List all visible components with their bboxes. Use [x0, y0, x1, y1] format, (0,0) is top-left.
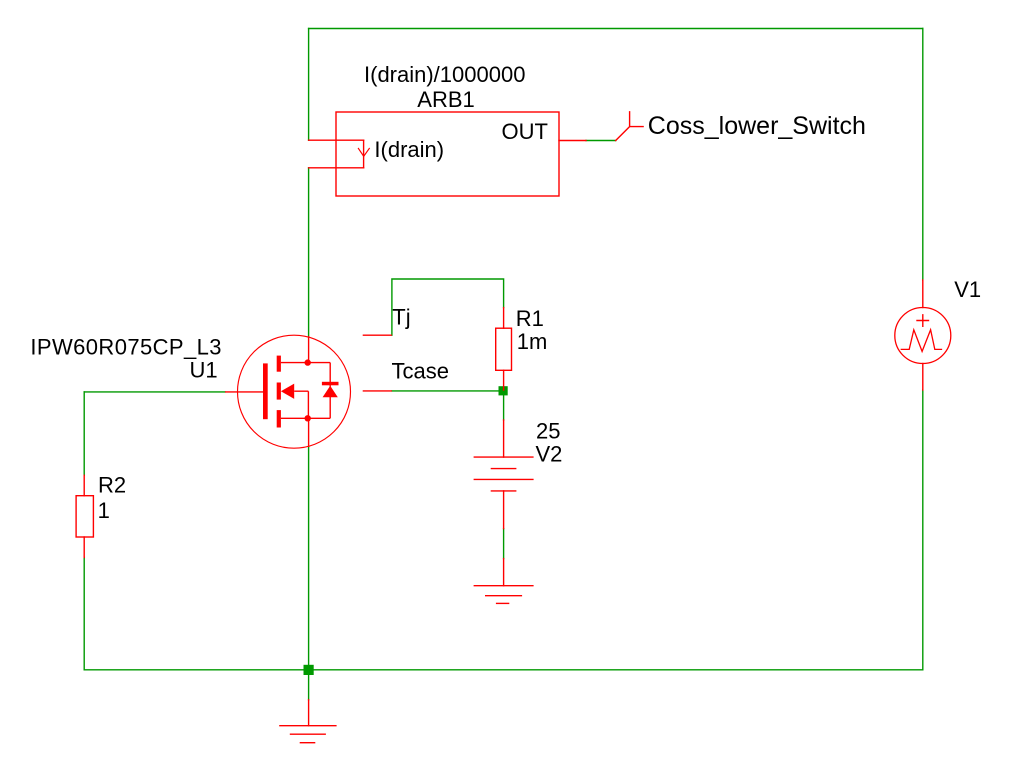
wire ARB1 sense vertical: [363, 140, 365, 168]
wire bottom rail: [84, 669, 923, 671]
svg-text:R2: R2: [98, 473, 126, 498]
svg-text:I(drain): I(drain): [374, 137, 444, 162]
svg-text:Tj: Tj: [392, 304, 410, 329]
svg-text:1: 1: [98, 498, 110, 523]
svg-text:1m: 1m: [517, 329, 548, 354]
resistor R1: [496, 308, 512, 390]
wire Tj to R1 top: [392, 279, 504, 335]
wire source to bottom rail: [308, 447, 310, 670]
svg-text:V2: V2: [536, 441, 563, 466]
wire body diode branch: [329, 363, 331, 419]
pin R1 bottom: [503, 370, 505, 390]
pin V1 top: [922, 280, 924, 308]
pin drain vertical: [308, 336, 310, 363]
wire right vertical to V1: [922, 29, 924, 281]
ground below bottom rail: [280, 700, 336, 743]
U1 body diode triangle: [323, 386, 338, 398]
wire gate horizontal: [84, 391, 225, 393]
wire left vertical gate to R2: [83, 392, 85, 475]
wire node to V2 top: [503, 391, 505, 420]
wire rail to ground stub: [308, 670, 310, 700]
pin R1 top: [503, 308, 505, 329]
resistor R2: [76, 475, 93, 557]
svg-text:OUT: OUT: [502, 119, 548, 144]
svg-text:ARB1: ARB1: [417, 87, 474, 112]
wire Tcase to node: [392, 390, 503, 392]
pin Tj stub: [363, 334, 392, 336]
wire V2 bottom to ground: [503, 529, 505, 559]
V2 plate long 1: [474, 456, 533, 458]
wire drain middle segment: [308, 168, 310, 336]
pin V2 bottom: [503, 491, 505, 529]
pin source vertical: [308, 418, 310, 447]
svg-text:I(drain)/1000000: I(drain)/1000000: [364, 62, 525, 87]
wire drain top segment: [308, 29, 310, 141]
voltage source V2 battery: [474, 420, 533, 529]
ground below V2: [474, 559, 533, 604]
V2 plate long 2: [474, 478, 533, 480]
pin Tcase stub: [363, 390, 392, 392]
voltage source V1: [895, 280, 951, 390]
wire substrate to source: [294, 391, 308, 418]
svg-text:Tcase: Tcase: [392, 359, 449, 384]
node Coss_lower_Switch probe marker: [616, 112, 643, 141]
svg-text:R1: R1: [516, 306, 544, 331]
wire drain horizontal: [281, 362, 330, 364]
wire R2 bottom to rail: [83, 557, 85, 669]
wire gate lead: [225, 391, 263, 393]
V1 triangle waveform: [901, 330, 941, 352]
U1 body diode cathode bar: [322, 382, 339, 386]
junction Tcase/R1/V2 node: [499, 386, 508, 395]
svg-text:IPW60R075CP_L3: IPW60R075CP_L3: [30, 334, 221, 359]
svg-text:25: 25: [536, 419, 560, 444]
U1 channel middle bar: [277, 383, 281, 400]
V2 plate short 2: [491, 490, 515, 492]
svg-text:V1: V1: [954, 277, 981, 302]
wire OUT pin red: [559, 140, 586, 142]
wire source horizontal: [281, 417, 330, 419]
wire top rail: [309, 28, 923, 30]
wire ARB1 sense pin bottom: [309, 167, 364, 169]
V2 plate short 1: [491, 468, 515, 470]
transistor U1 MOSFET: [225, 335, 392, 448]
op-amp U? arbitrary source ARB1 box: [336, 112, 559, 196]
svg-text:U1: U1: [190, 358, 218, 383]
junction drain dot: [305, 359, 311, 365]
svg-text:Coss_lower_Switch: Coss_lower_Switch: [648, 112, 866, 140]
wire V1 bottom to rail: [922, 390, 924, 670]
pin R2 top: [83, 475, 85, 495]
ARB1 sense arrowhead: [358, 148, 369, 156]
junction bottom rail node: [304, 665, 314, 675]
U1 substrate arrow: [281, 384, 294, 399]
wire ARB1 sense pin top: [309, 139, 364, 141]
pin V1 bottom: [922, 364, 924, 391]
wire OUT green segment: [586, 140, 616, 142]
pin R2 bottom: [83, 537, 85, 557]
V1 plus sign: [917, 315, 929, 327]
U1 gate bar: [263, 363, 268, 419]
U1 channel bottom bar: [277, 410, 281, 427]
U1 channel top bar: [277, 356, 281, 372]
pin V2 top: [503, 420, 505, 457]
junction source dot: [305, 415, 311, 421]
